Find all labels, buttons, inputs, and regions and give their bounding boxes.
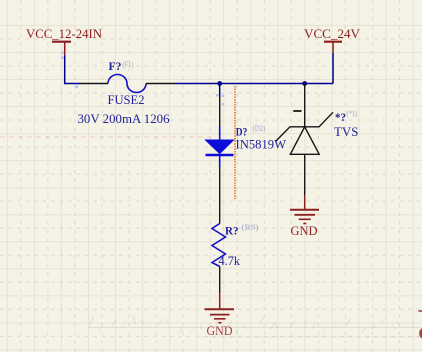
TVS diode body (triangle) (290, 127, 319, 155)
power port VCC_24V (304, 26, 361, 53)
TVS minus polarity mark (293, 110, 301, 112)
wire junction to TVS (304, 84, 306, 127)
svg-text:(F1): (F1) (123, 59, 134, 69)
svg-text:(R9): (R9) (242, 222, 259, 232)
svg-text:(D2): (D2) (253, 123, 266, 133)
orange highlight line (234, 86, 236, 201)
svg-text:(*1): (*1) (347, 108, 358, 118)
svg-text:VCC_12-24IN: VCC_12-24IN (26, 26, 103, 41)
wire resistor to GND (219, 267, 221, 293)
svg-text:R?: R? (225, 224, 239, 238)
diode D? top pin (219, 96, 221, 127)
TVS diode body (bent cathode bar) (276, 112, 333, 141)
svg-text:30V 200mA 1206: 30V 200mA 1206 (78, 111, 170, 126)
power port VCC_12-24IN (26, 26, 103, 55)
svg-text:TVS: TVS (334, 124, 359, 139)
wire from VCC_24V down to main wire (332, 53, 334, 84)
svg-text:GND: GND (291, 223, 318, 238)
svg-text:FUSE2: FUSE2 (108, 92, 145, 107)
wire junction to diode (219, 84, 221, 97)
svg-text:VCC_24V: VCC_24V (304, 26, 361, 41)
svg-text:*?: *? (335, 110, 346, 124)
fuse F? body (108, 75, 146, 93)
wire diode to resistor (219, 167, 221, 224)
fuse F? left pin (79, 83, 108, 85)
ground GND (left, under resistor) (205, 293, 235, 339)
resistor R? body (212, 224, 226, 267)
svg-text:4.7k: 4.7k (219, 253, 241, 268)
wire from VCC_12-24IN to fuse (65, 55, 80, 83)
diode D? body 1N5819W (206, 127, 234, 168)
svg-text:F?: F? (109, 59, 122, 73)
junction at diode branch (217, 81, 222, 86)
main horizontal wire (176, 83, 333, 85)
wire TVS to GND (304, 154, 306, 195)
junction at TVS branch (302, 81, 307, 86)
svg-text:GND: GND (207, 323, 233, 338)
ground GND (right, under TVS) (290, 195, 319, 238)
fuse F? right pin (146, 83, 176, 85)
